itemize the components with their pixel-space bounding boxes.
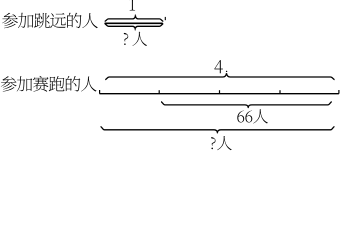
main line: [100, 93, 339, 95]
brace for 66人: [161, 102, 332, 108]
label 4: [214, 60, 223, 73]
label 66人: [237, 109, 268, 123]
label ?人 bottom: [211, 136, 232, 150]
end tick right: [338, 90, 340, 94]
tick 2: [219, 90, 221, 94]
tick 1: [158, 90, 160, 94]
small bar (thin filled stadium): [104, 23, 163, 25]
text 参加跳远的人: [2, 13, 98, 29]
brace over small bar: [105, 14, 164, 21]
label 1: [130, 0, 136, 10]
end tick left: [99, 90, 101, 94]
brace under small bar: [105, 24, 164, 31]
brace for ?人: [101, 127, 335, 134]
tick 3: [279, 90, 281, 94]
brace for 4: [105, 71, 334, 80]
text 参加赛跑的人: [1, 76, 97, 92]
label ?人 top: [124, 32, 147, 46]
stray tick right of small bar: [164, 17, 166, 20]
